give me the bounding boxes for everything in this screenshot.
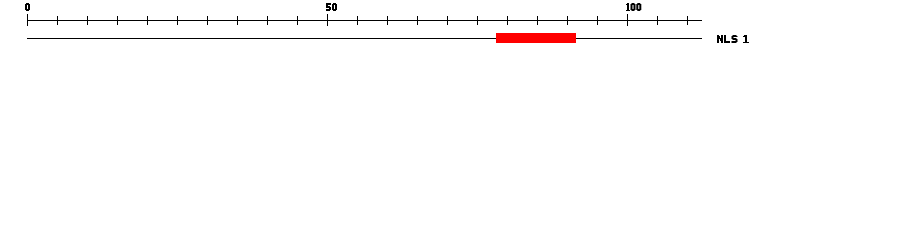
ruler label 50 <box>326 3 337 11</box>
ruler label 0 <box>25 3 30 11</box>
ruler major tick 100 <box>627 14 628 26</box>
ruler minor ticks (every 5 units, 30px) <box>57 16 688 25</box>
ruler line <box>27 20 702 21</box>
domain NLS 1 red box <box>496 33 576 43</box>
label NLS 1 <box>717 35 749 43</box>
ruler major tick 0 <box>27 14 28 26</box>
ruler label 100 <box>626 3 641 11</box>
sequence line <box>27 38 702 39</box>
ruler major tick 50 <box>327 14 328 26</box>
